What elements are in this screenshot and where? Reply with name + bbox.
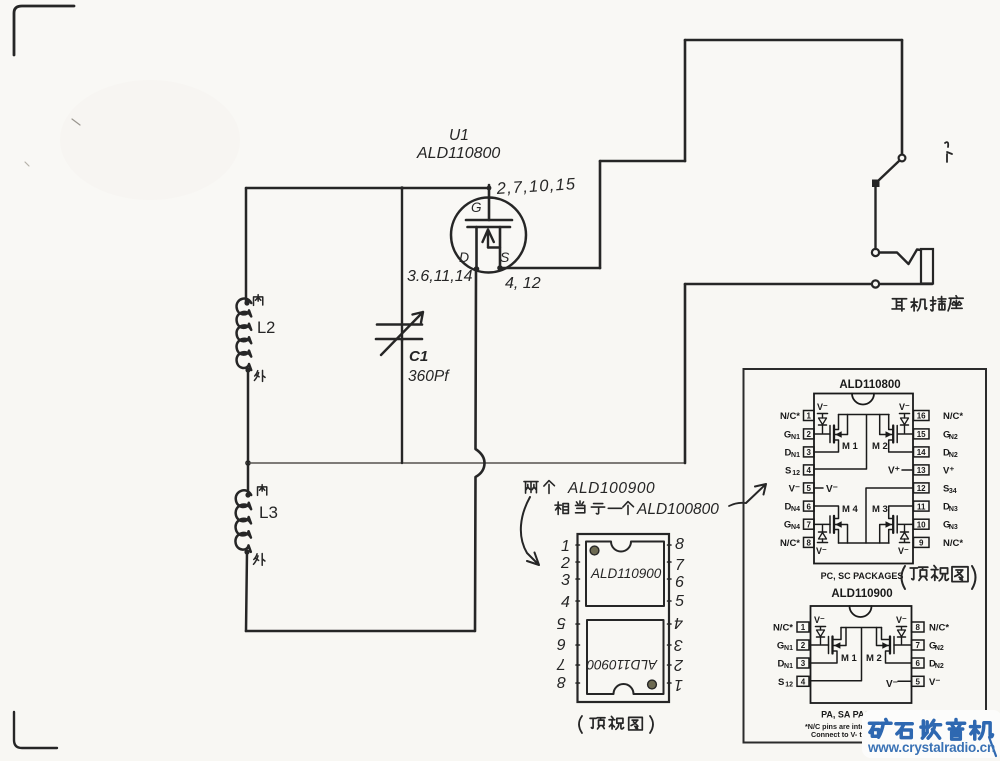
svg-text:6: 6 bbox=[915, 659, 920, 668]
hand DIP chip 2 pin-1 dot bbox=[648, 680, 657, 689]
label L2 outer terminal (Chinese wai) bbox=[254, 370, 265, 381]
switch blade bbox=[879, 161, 899, 180]
node source dot bbox=[497, 265, 503, 271]
svg-text:4: 4 bbox=[806, 466, 811, 475]
DIP-8 M1 wiring bbox=[810, 644, 829, 646]
svg-text:N3: N3 bbox=[949, 524, 958, 531]
DIP-8 M2 wiring bbox=[894, 644, 912, 646]
svg-text:V⁺: V⁺ bbox=[888, 466, 900, 477]
svg-text:8: 8 bbox=[806, 539, 811, 548]
svg-text:V⁻: V⁻ bbox=[929, 677, 940, 688]
dash from note to arrow bbox=[729, 503, 745, 506]
svg-text:N4: N4 bbox=[791, 506, 800, 513]
svg-text:16: 16 bbox=[917, 412, 926, 421]
lower diode right (to V-) bbox=[900, 542, 910, 544]
svg-text:ALD110900: ALD110900 bbox=[831, 588, 892, 600]
svg-text:14: 14 bbox=[917, 448, 926, 457]
svg-text:ALD110900: ALD110900 bbox=[586, 657, 658, 672]
switch fixed contact circle bbox=[899, 155, 906, 162]
label L3 inner terminal (Chinese nei) bbox=[258, 485, 267, 496]
svg-text:PC, SC PACKAGES: PC, SC PACKAGES bbox=[821, 571, 904, 581]
svg-text:V⁻: V⁻ bbox=[898, 546, 909, 556]
svg-text:N/C*: N/C* bbox=[773, 623, 793, 634]
scan frame corner top-left bbox=[14, 6, 74, 55]
svg-text:5: 5 bbox=[557, 614, 566, 631]
svg-text:L2: L2 bbox=[257, 319, 275, 337]
svg-text:N3: N3 bbox=[949, 506, 958, 513]
svg-text:7: 7 bbox=[915, 641, 920, 650]
svg-text:N2: N2 bbox=[935, 663, 944, 670]
jack sleeve contact circle bbox=[872, 280, 879, 287]
svg-text:12: 12 bbox=[785, 681, 793, 688]
svg-text:V⁻: V⁻ bbox=[826, 484, 838, 495]
wire right return vertical bbox=[684, 284, 687, 463]
DIP-8 left pin boxes 1-4 bbox=[797, 622, 809, 632]
svg-text:5: 5 bbox=[675, 593, 684, 610]
arrow pointing to datasheet box bbox=[746, 484, 766, 503]
inductor L3 coil bbox=[235, 490, 251, 551]
svg-text:S: S bbox=[785, 465, 791, 476]
svg-text:S: S bbox=[778, 677, 784, 688]
svg-text:1: 1 bbox=[801, 623, 806, 632]
svg-text:M 1: M 1 bbox=[841, 653, 858, 664]
node L2 bottom dot bbox=[245, 367, 250, 372]
label V- with dash from pin 5 bbox=[814, 487, 823, 489]
wire bottom rail bbox=[246, 630, 474, 633]
svg-text:5: 5 bbox=[915, 678, 920, 687]
node drain dot bbox=[474, 266, 480, 272]
svg-text:G: G bbox=[471, 200, 482, 215]
svg-text:M 3: M 3 bbox=[872, 504, 888, 515]
wire junction to L3 bbox=[247, 463, 250, 495]
svg-text:13: 13 bbox=[917, 466, 926, 475]
datasheet figure box bbox=[744, 369, 987, 743]
note line 2: equal to one ALD100800 (Chinese xiang-dang-yu-yi-ge) bbox=[555, 502, 568, 514]
DIP-16 right pin boxes 16-9 bbox=[914, 411, 930, 421]
DIP-8 right pin boxes 8-5 bbox=[912, 622, 925, 632]
gate protection diode left (to V-) bbox=[818, 413, 828, 415]
svg-text:1: 1 bbox=[561, 538, 570, 555]
capacitor C1 bottom plate bbox=[376, 338, 422, 341]
svg-text:N2: N2 bbox=[949, 434, 958, 441]
svg-text:4: 4 bbox=[674, 614, 683, 631]
hand DIP caption (Chinese top view) with parens bbox=[579, 716, 582, 733]
svg-text:9: 9 bbox=[919, 539, 924, 548]
svg-text:3.6,11,14: 3.6,11,14 bbox=[407, 268, 473, 285]
svg-text:V⁻: V⁻ bbox=[896, 615, 907, 625]
svg-text:3: 3 bbox=[674, 636, 683, 653]
jack tip spring contact bbox=[879, 250, 921, 265]
label L3 outer terminal (Chinese wai) bbox=[254, 554, 265, 566]
svg-text:N1: N1 bbox=[791, 452, 800, 459]
svg-text:11: 11 bbox=[917, 502, 926, 511]
svg-text:U1: U1 bbox=[449, 127, 469, 144]
svg-text:ALD110900: ALD110900 bbox=[590, 566, 662, 581]
DIP-16 left pin boxes 1-8 bbox=[804, 411, 815, 421]
transistor U1 source lead bbox=[499, 227, 502, 268]
svg-text:D: D bbox=[459, 249, 469, 265]
hand DIP pin ticks right bbox=[668, 545, 672, 683]
svg-text:N1: N1 bbox=[784, 663, 793, 670]
DIP-8 gate diode right bbox=[897, 626, 907, 628]
stray pen speck 2 bbox=[25, 162, 29, 166]
gate protection diode right (to V-) bbox=[900, 413, 910, 415]
transistor U1 channel bar bbox=[468, 226, 511, 229]
net S34 trace from pin 12 bbox=[866, 488, 913, 543]
svg-text:S: S bbox=[500, 249, 510, 265]
svg-text:M 2: M 2 bbox=[866, 653, 882, 664]
svg-text:www.crystalradio.cn: www.crystalradio.cn bbox=[867, 740, 995, 755]
svg-text:M 2: M 2 bbox=[872, 441, 888, 452]
headphone jack body bbox=[921, 249, 933, 284]
transistor U1 gate lead bbox=[488, 185, 491, 220]
svg-text:N4: N4 bbox=[791, 524, 800, 531]
svg-text:ALD110800: ALD110800 bbox=[839, 379, 900, 391]
wire source to right step bbox=[500, 267, 600, 270]
capacitor C1 top plate bbox=[377, 323, 422, 326]
wire L2 to mid-rail junction bbox=[247, 371, 250, 463]
wire mid rail (thin ruled line) bbox=[246, 462, 685, 464]
curved arrow from note to DIP drawing bbox=[521, 497, 539, 565]
hand DIP chip 2 body (rotated) bbox=[587, 620, 664, 694]
svg-text:V⁻: V⁻ bbox=[814, 615, 825, 625]
watermark logo (Chinese kuang-shi-shou-yin-ji) blue bbox=[869, 719, 891, 737]
svg-text:15: 15 bbox=[917, 430, 926, 439]
datasheet transistor M2 bbox=[896, 426, 898, 443]
datasheet transistor M4 bbox=[829, 516, 831, 533]
wire right riser bbox=[684, 40, 687, 161]
svg-text:V⁻: V⁻ bbox=[816, 546, 827, 556]
watermark brush flick bbox=[989, 737, 996, 756]
hand DIP pin ticks left bbox=[576, 545, 580, 683]
DIP-8 net S12 rail and pin-4 trace bbox=[810, 628, 882, 681]
hand DIP chip 1 pin-1 dot bbox=[590, 546, 599, 555]
svg-text:N/C*: N/C* bbox=[929, 623, 949, 634]
hand DIP outer rectangle bbox=[578, 534, 670, 702]
svg-text:4: 4 bbox=[561, 594, 570, 611]
jack tip contact circle bbox=[872, 249, 879, 256]
svg-text:N2: N2 bbox=[949, 452, 958, 459]
svg-text:8: 8 bbox=[557, 673, 566, 690]
svg-text:8: 8 bbox=[675, 536, 684, 553]
svg-text:3: 3 bbox=[801, 659, 806, 668]
wire left vertical (top rail to L2) bbox=[245, 188, 248, 303]
svg-text:N2: N2 bbox=[935, 645, 944, 652]
node L2 top dot bbox=[244, 300, 249, 305]
node L3 top dot bbox=[245, 492, 250, 497]
wire drain vertical with hop over mid rail bbox=[475, 270, 485, 631]
wire step vertical up bbox=[599, 161, 602, 268]
svg-text:Connect to V- tc: Connect to V- tc bbox=[811, 730, 866, 739]
svg-text:V⁺: V⁺ bbox=[943, 465, 954, 476]
svg-text:3: 3 bbox=[806, 448, 811, 457]
datasheet transistor M1 bbox=[829, 426, 831, 443]
node C1 top tick bbox=[400, 186, 404, 190]
svg-text:V⁻: V⁻ bbox=[886, 679, 898, 690]
DIP-16 top notch bbox=[852, 394, 874, 405]
svg-text:6: 6 bbox=[675, 574, 684, 591]
lower diode left (to V-) bbox=[818, 542, 828, 544]
svg-text:4, 12: 4, 12 bbox=[505, 275, 541, 292]
svg-text:5: 5 bbox=[806, 484, 811, 493]
node L3 bottom dot bbox=[244, 549, 249, 554]
transistor U1 gate bar bbox=[466, 219, 512, 222]
wire C1 branch upper bbox=[401, 188, 403, 341]
wire C1 branch lower bbox=[401, 339, 403, 463]
svg-text:1: 1 bbox=[806, 412, 811, 421]
M2 wiring bbox=[897, 433, 913, 435]
svg-text:V⁻: V⁻ bbox=[817, 402, 828, 412]
svg-text:ALD110800: ALD110800 bbox=[416, 145, 500, 162]
svg-text:ALD100800: ALD100800 bbox=[636, 501, 719, 518]
M4 wiring bbox=[814, 523, 830, 525]
DIP-8 gate diode left bbox=[816, 626, 826, 628]
stray pen mark near switch bbox=[945, 142, 952, 162]
svg-text:7: 7 bbox=[675, 557, 685, 574]
DIP-8 top notch bbox=[850, 606, 872, 617]
M3 wiring bbox=[897, 523, 913, 525]
svg-text:N/C*: N/C* bbox=[943, 411, 963, 422]
wire L3 to bottom rail bbox=[246, 552, 247, 631]
IC body ALD110800 DIP-16 bbox=[814, 394, 913, 564]
transistor U1 substrate-source tie bbox=[488, 246, 500, 248]
transistor U1 drain lead bbox=[475, 227, 478, 269]
svg-text:N/C*: N/C* bbox=[780, 538, 800, 549]
wire jack sleeve rail bbox=[685, 283, 932, 286]
inductor L2 coil bbox=[237, 299, 252, 370]
switch pole square bbox=[872, 180, 880, 188]
svg-text:7: 7 bbox=[556, 655, 566, 672]
svg-text:1: 1 bbox=[674, 676, 683, 693]
transistor U1 substrate arrow bbox=[483, 230, 494, 248]
datasheet transistor M3 bbox=[896, 516, 898, 533]
scan frame corner bottom-left bbox=[14, 712, 57, 748]
svg-text:2: 2 bbox=[674, 656, 684, 673]
stray pen speck 1 bbox=[72, 119, 80, 125]
svg-text:2: 2 bbox=[560, 555, 570, 572]
svg-text:C1: C1 bbox=[409, 348, 428, 365]
capacitor C1 variable arrow bbox=[381, 312, 423, 355]
svg-text:N/C*: N/C* bbox=[780, 411, 800, 422]
hand DIP chip 1 body bbox=[586, 542, 664, 607]
svg-text:ALD100900: ALD100900 bbox=[567, 480, 655, 497]
svg-text:V⁻: V⁻ bbox=[899, 402, 910, 412]
svg-text:M 1: M 1 bbox=[842, 441, 859, 452]
node gate junction dot bbox=[487, 186, 492, 191]
wire switch feed down bbox=[901, 40, 904, 154]
handwritten top-view note beside caption bbox=[902, 566, 906, 589]
svg-text:12: 12 bbox=[792, 470, 800, 477]
watermark white background bbox=[862, 710, 1000, 758]
label headphone jack (Chinese er-ji-cha-zuo) bbox=[892, 299, 907, 311]
svg-text:34: 34 bbox=[949, 488, 957, 495]
wire switch to jack tip bbox=[874, 187, 876, 249]
svg-text:10: 10 bbox=[917, 520, 926, 529]
svg-text:8: 8 bbox=[915, 623, 920, 632]
DIP-8 transistor M2 bbox=[893, 637, 895, 654]
label L2 inner terminal (Chinese nei) bbox=[254, 295, 263, 306]
wire step horizontal bbox=[600, 160, 685, 163]
svg-text:7: 7 bbox=[806, 520, 811, 529]
net S12 rail and pin-4 trace bbox=[814, 415, 889, 470]
svg-text:N1: N1 bbox=[784, 645, 793, 652]
net S34 bottom rail bbox=[839, 542, 890, 544]
svg-text:3: 3 bbox=[561, 572, 570, 589]
svg-text:4: 4 bbox=[801, 678, 806, 687]
svg-text:N/C*: N/C* bbox=[943, 538, 963, 549]
svg-text:12: 12 bbox=[917, 484, 926, 493]
wire top run to switch bbox=[685, 39, 902, 42]
svg-text:6: 6 bbox=[806, 502, 811, 511]
note line 1: two ALD100900 (Chinese liang-ge + ALD100900) bbox=[524, 482, 538, 494]
svg-text:2: 2 bbox=[806, 430, 811, 439]
svg-text:360Pf: 360Pf bbox=[408, 368, 450, 385]
IC body ALD110900 DIP-8 bbox=[811, 606, 912, 703]
node mid-rail junction dot bbox=[245, 460, 251, 466]
svg-text:2: 2 bbox=[801, 641, 806, 650]
svg-text:L3: L3 bbox=[259, 503, 278, 522]
svg-text:V⁻: V⁻ bbox=[789, 483, 800, 494]
transistor U1 MOSFET circle bbox=[451, 198, 526, 273]
M1 wiring: gate trace, source to rail, body arrow, drain to pin3 bbox=[814, 433, 830, 435]
wire top rail (tank top) bbox=[246, 187, 489, 190]
DIP-8 transistor M1 bbox=[828, 637, 830, 654]
svg-text:M 4: M 4 bbox=[842, 504, 859, 515]
svg-text:6: 6 bbox=[557, 635, 566, 652]
svg-text:N1: N1 bbox=[791, 434, 800, 441]
